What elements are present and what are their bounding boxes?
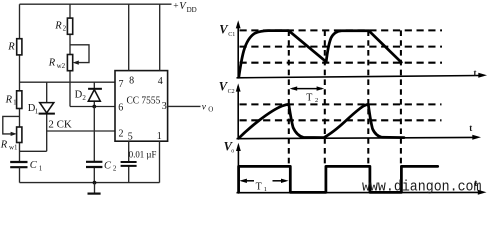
wire left branch vertical bbox=[19, 4, 21, 162]
svg-text:0.01 µF: 0.01 µF bbox=[129, 150, 157, 160]
svg-text:O: O bbox=[208, 106, 213, 114]
wire Rw1 wiper loop bbox=[3, 116, 20, 133]
resistor R1 bbox=[17, 91, 22, 109]
wire trigger link vertical and horizontal bbox=[20, 150, 47, 152]
ground bbox=[88, 183, 101, 194]
svg-text:C: C bbox=[30, 160, 38, 171]
wire pin6 net horizontal bbox=[70, 106, 115, 108]
wire pin3 output bbox=[168, 105, 201, 107]
annotation T2 label bbox=[306, 92, 318, 104]
svg-text:1: 1 bbox=[35, 108, 39, 116]
svg-text:w1: w1 bbox=[9, 143, 18, 151]
svg-text:R: R bbox=[54, 20, 62, 31]
svg-text:1: 1 bbox=[39, 164, 43, 172]
wire C2 vertical bbox=[93, 107, 95, 183]
wire C1 to bottom rail bbox=[19, 167, 21, 182]
svg-text:1: 1 bbox=[157, 131, 162, 142]
svg-text:D: D bbox=[75, 90, 83, 101]
svg-text:8: 8 bbox=[129, 76, 134, 87]
svg-text:R: R bbox=[48, 58, 56, 69]
capacitor 0.01uF bypass bbox=[121, 162, 137, 166]
svg-text:R: R bbox=[0, 139, 8, 150]
svg-text:R: R bbox=[5, 94, 13, 105]
dashed level lines VC1 bbox=[240, 29, 443, 31]
op-amp U1 CC7555 box bbox=[115, 71, 168, 142]
svg-text:DD: DD bbox=[187, 6, 197, 14]
svg-text:+: + bbox=[173, 2, 178, 12]
label VC2 bbox=[219, 79, 235, 94]
vertical dashed gridline 3 bbox=[367, 30, 369, 166]
plot Vo axes bbox=[236, 143, 487, 195]
wire pin8 to rail bbox=[128, 4, 130, 70]
svg-text:2: 2 bbox=[315, 97, 318, 104]
dashed level lines VC2 bbox=[240, 103, 442, 105]
label Vo bbox=[224, 140, 235, 155]
svg-text:2: 2 bbox=[82, 94, 86, 102]
svg-text:4: 4 bbox=[158, 76, 163, 87]
svg-text:C: C bbox=[104, 160, 112, 171]
capacitor C2 bbox=[86, 162, 102, 167]
wire bottom rail bbox=[20, 182, 160, 184]
wire pin7 net horizontal bbox=[20, 81, 116, 83]
svg-text:7: 7 bbox=[119, 79, 124, 90]
wire Rw2 wiper loop bbox=[70, 45, 89, 63]
plot VC1 axes bbox=[236, 20, 487, 78]
svg-text:w2: w2 bbox=[57, 62, 66, 70]
resistor R2 bbox=[67, 18, 72, 34]
resistor R bbox=[17, 39, 22, 55]
svg-text:CC 7555: CC 7555 bbox=[127, 95, 161, 106]
svg-text:6: 6 bbox=[118, 103, 123, 114]
annotation T2 arrow bbox=[290, 86, 325, 90]
svg-text:1: 1 bbox=[13, 99, 17, 107]
waveform VC1 bbox=[239, 31, 401, 78]
vertical dashed gridline 1 bbox=[288, 30, 290, 166]
node +VDD label bbox=[173, 1, 196, 14]
plot VC2 axes bbox=[236, 83, 481, 139]
svg-text:T: T bbox=[256, 181, 262, 192]
svg-text:C2: C2 bbox=[228, 89, 235, 95]
svg-text:T: T bbox=[306, 92, 312, 103]
svg-text:C1: C1 bbox=[228, 32, 235, 38]
svg-text:5: 5 bbox=[128, 132, 133, 143]
wire R2 branch vertical bbox=[69, 4, 71, 106]
capacitor C1 bbox=[10, 162, 27, 167]
junction node ground bbox=[93, 181, 97, 185]
label VC1 bbox=[219, 23, 235, 39]
vertical dashed gridline 4 bbox=[400, 30, 402, 166]
wire pin2 net horizontal bbox=[47, 130, 115, 132]
svg-text:R: R bbox=[7, 41, 15, 52]
diode D1 bbox=[39, 82, 55, 151]
svg-text:t: t bbox=[469, 123, 472, 133]
svg-text:www.diangon.com: www.diangon.com bbox=[362, 178, 482, 195]
waveform Vo square wave bbox=[239, 166, 438, 192]
svg-text:3: 3 bbox=[162, 101, 167, 112]
wire pin4 to rail bbox=[159, 4, 161, 70]
wire +VDD top rail bbox=[20, 3, 172, 5]
vertical dashed gridline 2 bbox=[324, 30, 326, 166]
svg-text:2 CK: 2 CK bbox=[48, 119, 71, 131]
wire pin5 to bypass cap bbox=[128, 141, 130, 182]
annotation T1 arrows bbox=[239, 179, 288, 183]
svg-text:o: o bbox=[231, 149, 234, 155]
potentiometer Rw2 bbox=[67, 55, 72, 71]
annotation T1 label bbox=[256, 181, 267, 193]
svg-text:2: 2 bbox=[113, 165, 117, 173]
svg-text:2: 2 bbox=[63, 25, 67, 33]
junction node pin6/C2 bbox=[92, 105, 96, 109]
wire pin1 to bottom rail bbox=[159, 141, 161, 182]
svg-text:t: t bbox=[474, 68, 477, 78]
diode D2 bbox=[88, 82, 102, 106]
waveform VC2 bbox=[239, 104, 404, 138]
potentiometer Rw1 bbox=[17, 127, 22, 143]
svg-text:2: 2 bbox=[119, 129, 124, 140]
svg-text:1: 1 bbox=[264, 186, 267, 193]
node vO label bbox=[202, 103, 213, 114]
